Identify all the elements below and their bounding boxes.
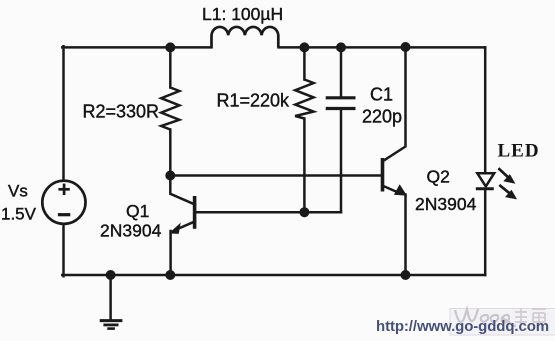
- node R1/top rail: [299, 42, 309, 52]
- node R2/top rail: [165, 42, 175, 52]
- wire top rail right segment: [279, 46, 486, 49]
- watermark cjk glyph 1: [515, 308, 527, 324]
- watermark script: [455, 309, 516, 326]
- svg-text:1.5V: 1.5V: [1, 205, 37, 224]
- resistor R2: [161, 88, 179, 130]
- wire Q2 emitter lead: [404, 195, 407, 276]
- wire Q2 collector lead: [384, 47, 406, 160]
- node R1/Q1 base: [299, 207, 309, 217]
- wire node line Q1-collector to Q2-base: [170, 174, 381, 177]
- plus sign: [58, 184, 69, 195]
- wire left rail lower: [62, 224, 65, 276]
- LED light arrow 1: [498, 168, 508, 177]
- node junction dots: [106, 42, 411, 280]
- ground: [100, 321, 123, 329]
- node Q1 emitter/bottom rail: [165, 270, 175, 280]
- capacitor C1: [326, 98, 356, 109]
- svg-text:220p: 220p: [362, 107, 402, 127]
- wire R1 bottom lead: [303, 119, 306, 213]
- node Q2 collector/top rail: [401, 42, 411, 52]
- svg-text:2N3904: 2N3904: [415, 194, 477, 214]
- LED light arrow 2: [499, 185, 510, 194]
- svg-text:Q2: Q2: [427, 167, 450, 187]
- LED D1: [476, 168, 517, 199]
- transistor Q2: [383, 158, 406, 195]
- wire Q1 collector lead: [170, 176, 193, 204]
- wire C1 top lead: [340, 47, 343, 96]
- svg-text:2N3904: 2N3904: [100, 221, 162, 241]
- wire Q1 base line: [196, 211, 341, 214]
- svg-text:R1=220k: R1=220k: [217, 91, 291, 111]
- wire R2 bottom lead: [169, 130, 172, 176]
- svg-text:LED: LED: [498, 141, 540, 162]
- wire LED top lead: [484, 47, 487, 172]
- node Q2 emitter/bottom rail: [401, 270, 411, 280]
- node C1/top rail: [336, 42, 346, 52]
- wire R1 top lead: [303, 47, 306, 79]
- wire LED bottom lead: [484, 190, 487, 276]
- wire top rail left segment: [62, 46, 211, 49]
- inductor L1: [212, 27, 279, 47]
- watermark box: [450, 309, 555, 336]
- svg-text:http://www.go-gddq.com: http://www.go-gddq.com: [376, 318, 549, 335]
- wire left rail upper: [62, 46, 65, 181]
- wire ground stem: [109, 275, 112, 319]
- wire R2 top lead: [169, 47, 172, 87]
- svg-text:Vs: Vs: [8, 182, 28, 201]
- watermark cjk glyph 2: [532, 309, 546, 326]
- node Q1 collector/Q2 base: [165, 171, 175, 181]
- svg-text:Q1: Q1: [126, 201, 149, 221]
- node ground/bottom rail: [106, 270, 116, 280]
- transistor Q1: [170, 196, 194, 233]
- svg-text:L1: 100µH: L1: 100µH: [202, 4, 283, 24]
- voltage source Vs: [42, 181, 85, 224]
- svg-text:R2=330R: R2=330R: [83, 102, 160, 122]
- wire C1 bottom lead: [340, 110, 343, 213]
- wire Q1 emitter lead: [169, 231, 172, 275]
- svg-text:C1: C1: [370, 85, 393, 105]
- minus sign: [58, 213, 70, 216]
- wire bottom rail: [62, 274, 485, 277]
- resistor R1: [295, 80, 313, 119]
